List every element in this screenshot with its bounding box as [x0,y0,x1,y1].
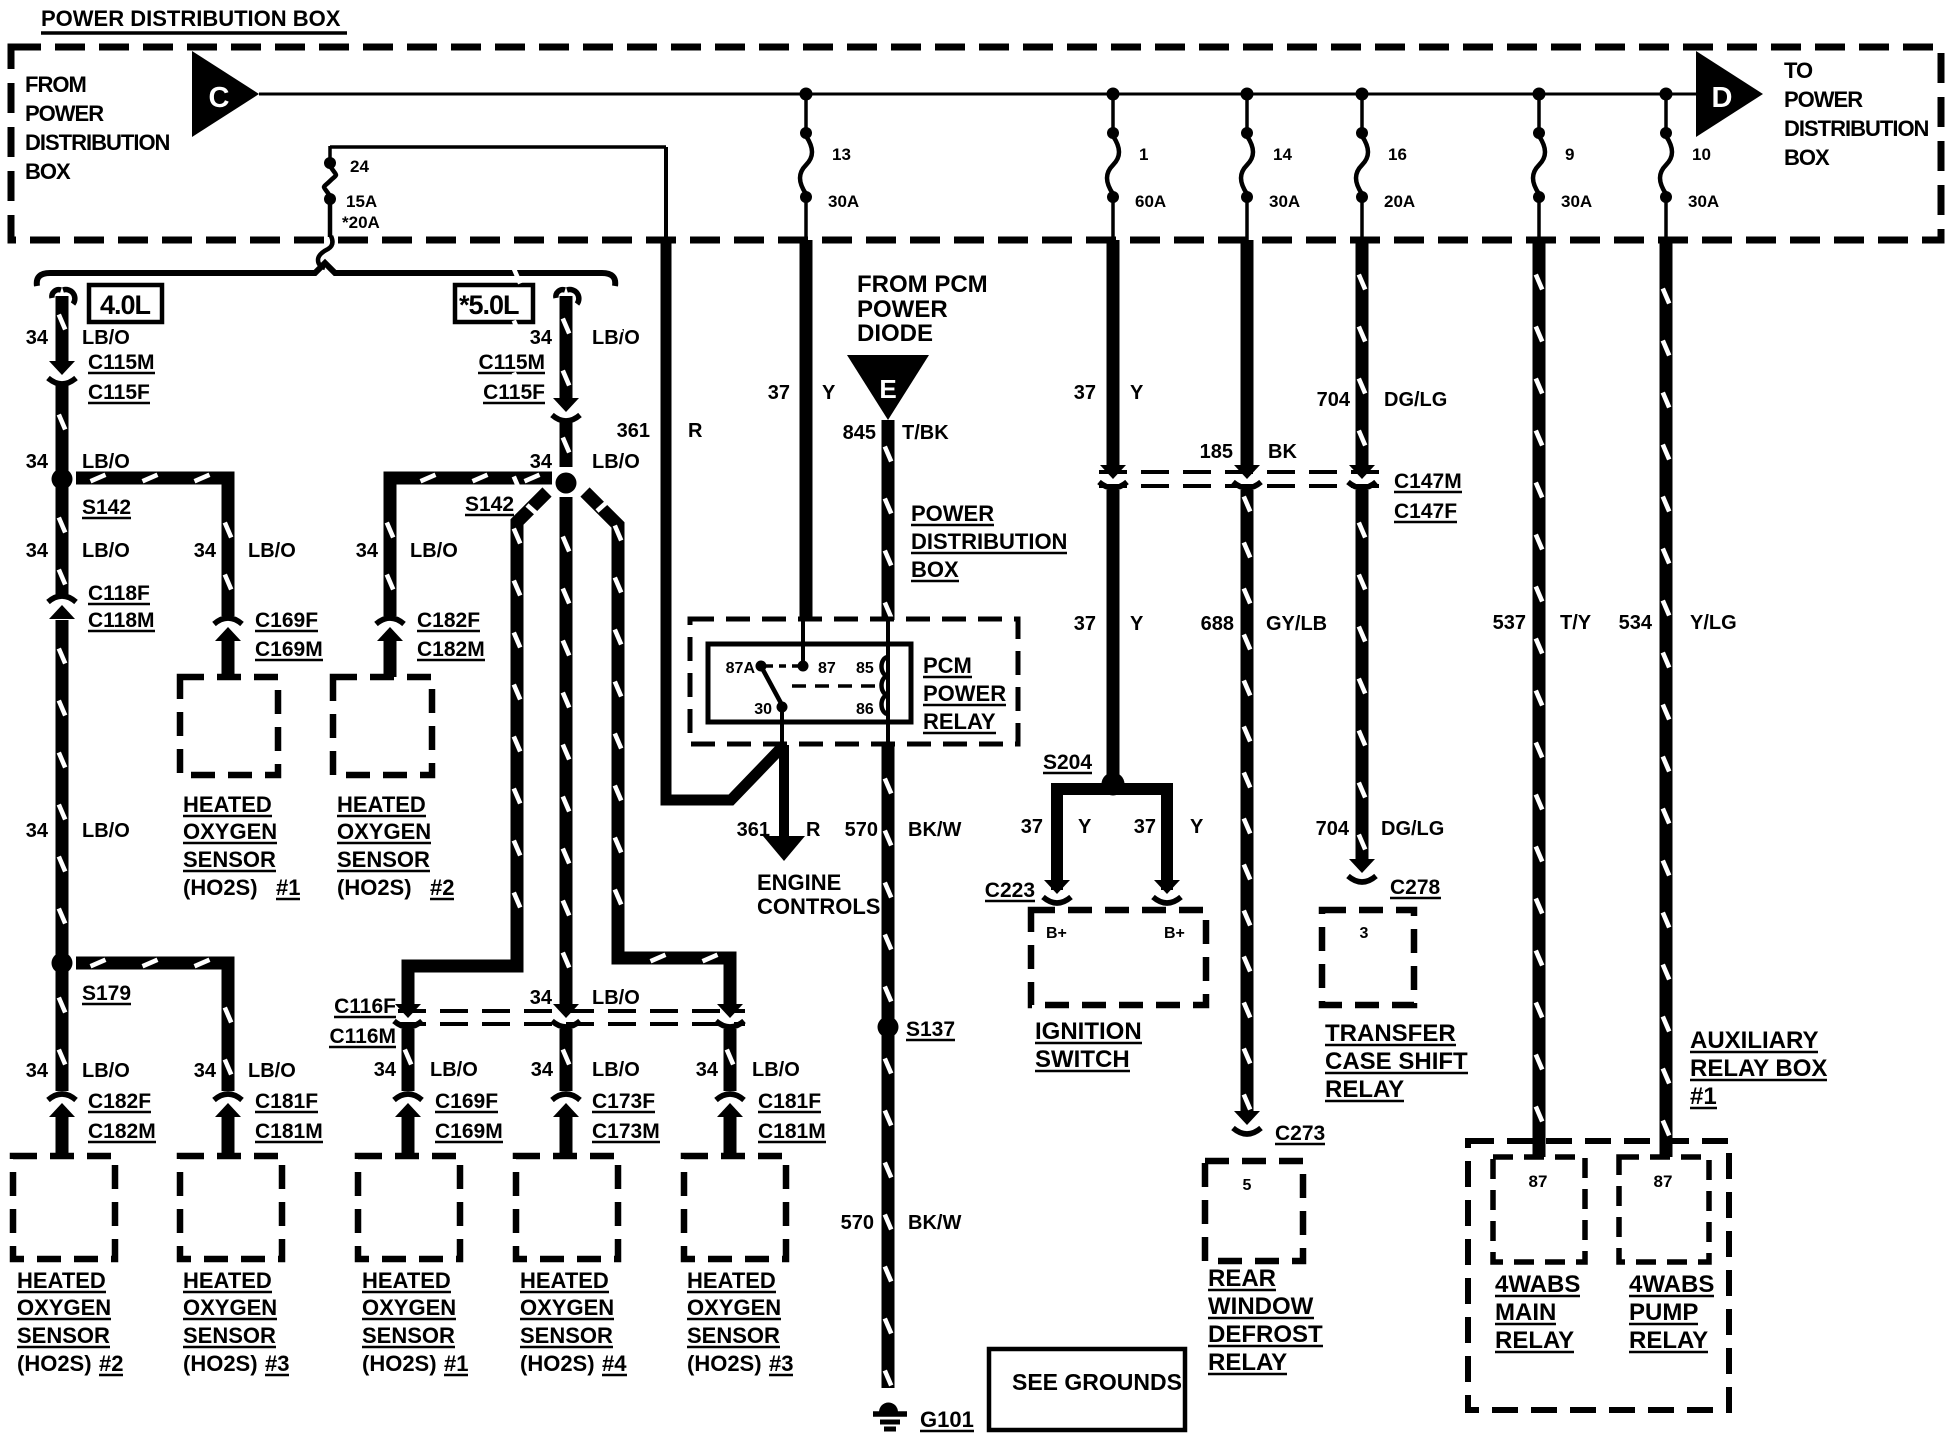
relay switch blade [762,668,782,705]
engine tag 4.0L [89,285,162,322]
svg-text:3: 3 [1360,925,1369,942]
svg-text:#1: #1 [1690,1083,1717,1110]
svg-text:570: 570 [841,1212,874,1234]
svg-text:C169M: C169M [255,638,323,661]
wire 361 R inside box [664,147,668,240]
wire 34 LB/O S142 branch to C182 (upper) [390,478,552,616]
svg-text:37: 37 [1134,816,1156,838]
svg-text:570: 570 [845,819,878,841]
svg-text:C116F: C116F [334,995,396,1018]
svg-text:HEATED: HEATED [362,1268,451,1293]
svg-text:37: 37 [1074,382,1096,404]
svg-text:S142: S142 [465,493,514,516]
wire stub into HO2S #1 box [402,1117,415,1156]
svg-text:#4: #4 [602,1351,627,1376]
svg-text:34: 34 [530,327,553,349]
svg-text:DG/LG: DG/LG [1381,818,1444,840]
svg-text:34: 34 [696,1059,719,1081]
connector C182F/C182M (bottom row 1) [49,1103,75,1117]
svg-text:LB/O: LB/O [82,327,130,349]
svg-text:1: 1 [1139,145,1148,164]
wire 361 R [666,240,783,800]
connector arrow D (to power distribution box) [1696,51,1763,137]
svg-text:688: 688 [1201,613,1234,635]
svg-text:C182F: C182F [417,609,480,632]
svg-text:86: 86 [856,701,874,718]
diode E symbol [847,355,929,420]
svg-text:POWER: POWER [25,101,104,126]
svg-text:FROM: FROM [25,72,86,97]
svg-text:BOX: BOX [911,557,959,582]
svg-text:PUMP: PUMP [1629,1299,1698,1326]
HO2S #2 box (upper) [333,677,432,775]
svg-text:SENSOR: SENSOR [17,1323,110,1348]
power distribution box outline [11,47,1941,240]
relay pin 30 [777,702,788,713]
svg-text:5: 5 [1243,1177,1252,1194]
svg-text:C181M: C181M [255,1120,323,1143]
wire 34 LB/O S179 branch to C181 (bottom row 2) [76,963,228,1091]
wire 34 LB/O (5.0L branch, x=566) top segment [556,290,565,298]
svg-text:30A: 30A [1269,192,1300,211]
HO2S #2 box (bottom row 1) [13,1156,115,1259]
svg-text:C147M: C147M [1394,470,1462,493]
svg-text:LB/O: LB/O [592,327,640,349]
svg-text:C278: C278 [1390,876,1441,899]
svg-text:34: 34 [194,1060,217,1082]
svg-text:534: 534 [1619,612,1653,634]
svg-text:SWITCH: SWITCH [1035,1046,1130,1073]
SEE GROUNDS note box [989,1349,1185,1430]
fuse 13 (30A) [804,94,808,133]
connector C181F/C181M (bottom row 2) [215,1103,241,1117]
svg-text:C115F: C115F [483,381,545,404]
svg-text:4WABS: 4WABS [1495,1271,1580,1298]
svg-text:S142: S142 [82,496,131,519]
connector C223 right half [1154,880,1180,894]
svg-text:(HO2S): (HO2S) [362,1351,437,1376]
svg-text:OXYGEN: OXYGEN [362,1295,456,1320]
connector C273 [1234,1111,1260,1125]
svg-text:30A: 30A [828,192,859,211]
svg-text:34: 34 [356,540,379,562]
splice S142 (left) [52,469,73,490]
wire stub into HO2S #4 box [560,1117,573,1156]
svg-text:34: 34 [26,451,49,473]
svg-text:RELAY: RELAY [923,709,996,734]
svg-text:POWER: POWER [911,501,994,526]
junction node on bus at x=1539 [1533,88,1546,101]
engine tag *5.0L [455,285,533,322]
svg-text:37: 37 [1021,816,1043,838]
svg-text:13: 13 [832,145,851,164]
svg-text:Y: Y [822,382,836,404]
svg-text:*5.0L: *5.0L [459,290,519,320]
svg-text:60A: 60A [1135,192,1166,211]
svg-text:WINDOW: WINDOW [1208,1293,1314,1320]
svg-text:OXYGEN: OXYGEN [183,1295,277,1320]
bus wire from C to D [259,93,1696,96]
svg-text:30: 30 [754,701,772,718]
relay coil [882,657,889,714]
connector C115M/C115F (4.0L) [49,361,75,375]
fuse 14 (30A) [1245,94,1249,133]
HO2S #4 box (bottom row 4) [516,1156,618,1259]
svg-text:BK/W: BK/W [908,819,961,841]
svg-text:34: 34 [26,327,49,349]
fuse 16 (20A) [1360,94,1364,133]
svg-text:GY/LB: GY/LB [1266,613,1327,635]
svg-text:D: D [1712,82,1733,114]
HO2S #3 box (bottom row 5) [684,1156,786,1259]
svg-text:BOX: BOX [25,159,71,184]
svg-text:Y: Y [1190,816,1204,838]
svg-text:16: 16 [1388,145,1407,164]
svg-text:C: C [209,82,230,114]
svg-text:LB/O: LB/O [592,987,640,1009]
relay pin 87 [798,661,809,672]
svg-text:Y: Y [1078,816,1092,838]
svg-text:C115F: C115F [88,381,150,404]
wire below C116 to C181 (lower right) [724,1029,737,1091]
svg-text:(HO2S): (HO2S) [183,875,258,900]
svg-text:4WABS: 4WABS [1629,1271,1714,1298]
connector C173F/C173M [553,1103,579,1117]
wire 534 Y/LG from fuse 10 [1660,240,1673,1157]
svg-text:DEFROST: DEFROST [1208,1321,1323,1348]
4WABS main relay box [1493,1157,1585,1262]
connector C223 left half [1044,880,1070,894]
PCM power relay outer box [690,619,1018,744]
svg-text:LB/O: LB/O [82,451,130,473]
svg-text:LB/O: LB/O [592,1059,640,1081]
wire stub into HO2S #1 box (upper) [222,640,235,677]
svg-text:TRANSFER: TRANSFER [1325,1020,1456,1047]
svg-text:LB/O: LB/O [82,540,130,562]
svg-text:OXYGEN: OXYGEN [337,819,431,844]
svg-text:HEATED: HEATED [17,1268,106,1293]
svg-text:POWER: POWER [857,296,948,323]
svg-text:R: R [688,420,703,442]
svg-text:*20A: *20A [342,213,380,232]
svg-text:LB/O: LB/O [248,540,296,562]
svg-text:87: 87 [1529,1172,1548,1191]
svg-text:30A: 30A [1561,192,1592,211]
svg-text:RELAY: RELAY [1495,1327,1574,1354]
wire 34 LB/O S142 down to C116 [560,497,573,1005]
svg-text:845: 845 [843,422,876,444]
svg-text:C173F: C173F [592,1090,655,1113]
fuse 24 (15A/*20A) [328,146,332,162]
svg-text:SENSOR: SENSOR [337,847,430,872]
svg-text:34: 34 [194,540,217,562]
wire 34 LB/O (4.0L branch, x=62) top segment [52,290,61,298]
connector C181F/C181M (bottom row 5) [717,1103,743,1117]
wire stub into HO2S #3 box (right) [724,1117,737,1156]
svg-text:185: 185 [1200,441,1233,463]
svg-text:361: 361 [737,819,770,841]
svg-text:BK: BK [1268,441,1297,463]
svg-text:C169F: C169F [435,1090,498,1113]
svg-text:9: 9 [1565,145,1574,164]
junction node on bus at x=806 [800,88,813,101]
svg-text:87: 87 [1654,1172,1673,1191]
svg-text:POWER: POWER [923,681,1006,706]
svg-text:LB/O: LB/O [592,451,640,473]
svg-text:IGNITION: IGNITION [1035,1018,1142,1045]
svg-text:POWER: POWER [1784,87,1863,112]
wire 34 LB/O S142 diagonal branch to C181 (bottom row 5) [585,492,730,1005]
svg-text:LB/O: LB/O [430,1059,478,1081]
svg-text:704: 704 [1316,818,1350,840]
svg-text:OXYGEN: OXYGEN [687,1295,781,1320]
svg-text:DIODE: DIODE [857,320,933,347]
svg-text:24: 24 [350,157,369,176]
svg-text:87: 87 [818,660,836,677]
svg-text:C115M: C115M [88,351,155,374]
svg-text:CONTROLS: CONTROLS [757,894,880,919]
wire stub into HO2S #2 box [56,1117,69,1156]
svg-text:HEATED: HEATED [183,792,272,817]
PCM power relay inner box [708,644,911,722]
fuse 1 (60A) [1111,94,1115,133]
svg-text:C182M: C182M [417,638,485,661]
fuse 10 (30A) [1664,94,1668,133]
svg-text:37: 37 [768,382,790,404]
svg-text:HEATED: HEATED [337,792,426,817]
inline connector C116 on wire 566 [553,1004,579,1018]
svg-text:LB/O: LB/O [248,1060,296,1082]
splice S204 bracket to ignition switch [1057,789,1167,890]
inline connector C147M/C147F lines [1099,470,1386,474]
svg-text:HEATED: HEATED [183,1268,272,1293]
svg-text:C118M: C118M [88,609,155,632]
svg-text:C181F: C181F [758,1090,821,1113]
svg-text:PCM: PCM [923,653,972,678]
wire 37 Y from fuse 1 [1107,240,1120,472]
svg-text:LB/O: LB/O [752,1059,800,1081]
svg-text:LB/O: LB/O [410,540,458,562]
wire stub into HO2S #3 box [222,1117,235,1156]
svg-text:G101: G101 [920,1407,974,1432]
svg-text:R: R [806,819,821,841]
svg-text:SENSOR: SENSOR [183,1323,276,1348]
wire 34 LB/O S179 to C182 [56,963,69,1091]
svg-text:MAIN: MAIN [1495,1299,1556,1326]
svg-text:C116M: C116M [329,1025,396,1048]
splice S204 [1102,773,1125,796]
svg-text:DISTRIBUTION: DISTRIBUTION [911,529,1067,554]
inline connector C147 on wire 1247 [1234,465,1260,479]
wire 704 DG/LG C147 to C278 [1356,490,1369,860]
svg-text:ENGINE: ENGINE [757,870,841,895]
splice S179 [52,953,73,974]
svg-text:S179: S179 [82,982,131,1005]
svg-text:SENSOR: SENSOR [520,1323,613,1348]
svg-text:704: 704 [1317,389,1351,411]
svg-text:34: 34 [530,451,553,473]
connector C278 [1349,859,1375,873]
svg-text:#2: #2 [430,875,454,900]
wire T/BK thin through relay [886,619,890,745]
arrow to engine controls [779,745,789,838]
wire 570 BK/W relay to S137 [882,744,895,1027]
junction node on bus at x=1666 [1660,88,1673,101]
ground G101 [879,1403,898,1413]
svg-text:537: 537 [1493,612,1526,634]
svg-text:POWER DISTRIBUTION BOX: POWER DISTRIBUTION BOX [41,6,341,31]
svg-text:C118F: C118F [88,582,150,605]
svg-text:20A: 20A [1384,192,1415,211]
svg-text:34: 34 [530,987,553,1009]
svg-text:RELAY BOX: RELAY BOX [1690,1055,1827,1082]
svg-text:87A: 87A [726,660,756,677]
svg-text:4.0L: 4.0L [100,290,151,320]
connector arrow C (from power distribution box) [192,51,259,137]
svg-text:10: 10 [1692,145,1711,164]
svg-text:C115M: C115M [478,351,545,374]
svg-text:CASE SHIFT: CASE SHIFT [1325,1048,1468,1075]
svg-text:#3: #3 [769,1351,793,1376]
svg-text:(HO2S): (HO2S) [183,1351,258,1376]
HO2S #1 box (upper) [180,677,278,775]
relay contact dashed link [766,664,798,668]
wire 34 LB/O below C115 [56,382,69,479]
inline connector C116 on wire 730 [717,1004,743,1018]
wire 570 BK/W S137 to ground [882,1027,895,1388]
inline connector C147 on wire 1113 [1100,465,1126,479]
svg-text:(HO2S): (HO2S) [520,1351,595,1376]
auxiliary relay box #1 outline [1468,1141,1729,1410]
svg-text:37: 37 [1074,613,1096,635]
svg-text:S137: S137 [906,1018,955,1041]
svg-text:S204: S204 [1043,751,1092,774]
svg-text:85: 85 [856,660,874,677]
wire 537 T/Y from fuse 9 [1533,240,1546,1157]
junction node on bus at x=1362 [1356,88,1369,101]
wire 34 LB/O C118 to S179 [56,620,69,963]
svg-text:C273: C273 [1275,1122,1325,1145]
connector C169F/C169M (upper) [215,627,241,641]
svg-text:#1: #1 [444,1351,468,1376]
splice S137 [878,1017,899,1038]
svg-text:T/BK: T/BK [902,422,949,444]
svg-text:34: 34 [531,1059,554,1081]
wire 34 LB/O C116 to C173 [560,1029,573,1091]
svg-text:C147F: C147F [1394,500,1457,523]
junction node on bus at x=1113 [1107,88,1120,101]
svg-text:DISTRIBUTION: DISTRIBUTION [25,130,170,155]
svg-text:Y: Y [1130,613,1144,635]
connector C182F/C182M (upper) [377,627,403,641]
connector C118F/C118M [49,605,75,619]
relay pin 30 lead [780,712,784,747]
svg-text:C181F: C181F [255,1090,318,1113]
svg-text:15A: 15A [346,192,377,211]
harness bracket [37,263,615,286]
svg-text:BOX: BOX [1784,145,1830,170]
wire stub into HO2S #2 box (upper) [384,640,397,677]
svg-text:DG/LG: DG/LG [1384,389,1447,411]
ignition switch box [1031,910,1206,1005]
svg-text:Y/LG: Y/LG [1690,612,1737,634]
svg-text:E: E [879,374,896,404]
inline connector C116F/C116M lines [398,1009,745,1013]
inline connector C116 on wire 408 [395,1004,421,1018]
transfer case shift relay box [1322,910,1414,1005]
svg-text:#2: #2 [99,1351,123,1376]
svg-text:C169M: C169M [435,1120,503,1143]
wire 34 LB/O S142 diagonal branch to C169 (lower) [408,492,547,1005]
svg-text:C182M: C182M [88,1120,156,1143]
svg-text:34: 34 [26,540,49,562]
svg-text:T/Y: T/Y [1560,612,1592,634]
svg-text:OXYGEN: OXYGEN [17,1295,111,1320]
svg-text:34: 34 [26,820,49,842]
svg-text:LB/O: LB/O [82,1060,130,1082]
inline connector C147 on wire 1362 [1349,465,1375,479]
svg-text:RELAY: RELAY [1208,1349,1287,1376]
wire 185 BK from fuse 14 [1241,240,1254,472]
relay pin 87A [756,661,767,672]
relay actuation dashed line [792,684,876,688]
svg-text:C182F: C182F [88,1090,151,1113]
svg-text:#1: #1 [276,875,300,900]
svg-text:OXYGEN: OXYGEN [183,819,277,844]
svg-text:SEE GROUNDS: SEE GROUNDS [1012,1369,1182,1395]
svg-text:361: 361 [617,420,650,442]
svg-text:C173M: C173M [592,1120,660,1143]
svg-text:(HO2S): (HO2S) [17,1351,92,1376]
wire 688 GY/LB C147 to C273 [1241,490,1254,1112]
svg-text:FROM PCM: FROM PCM [857,271,988,298]
HO2S #3 box (bottom row 2) [180,1156,282,1259]
svg-text:LB/O: LB/O [82,820,130,842]
svg-text:Y: Y [1130,382,1144,404]
4WABS pump relay box [1619,1157,1709,1262]
svg-text:TO: TO [1784,58,1813,83]
svg-text:HEATED: HEATED [687,1268,776,1293]
wire 704 DG/LG from fuse 16 [1356,240,1369,472]
wire 37 Y C147 to S204 [1107,490,1120,778]
svg-text:SENSOR: SENSOR [687,1323,780,1348]
svg-text:RELAY: RELAY [1629,1327,1708,1354]
svg-text:30A: 30A [1688,192,1719,211]
connector C169F/C169M (bottom row 3) [395,1103,421,1117]
svg-text:C181M: C181M [758,1120,826,1143]
connector C115M/C115F (5.0L) [553,398,579,412]
wire below C116 to C169 (lower) [402,1029,415,1091]
svg-text:OXYGEN: OXYGEN [520,1295,614,1320]
svg-text:HEATED: HEATED [520,1268,609,1293]
svg-text:B+: B+ [1046,925,1067,942]
svg-text:AUXILIARY: AUXILIARY [1690,1027,1818,1054]
fuse 9 (30A) [1537,94,1541,133]
wire 37 Y from fuse 13 [800,240,813,618]
svg-text:(HO2S): (HO2S) [337,875,412,900]
svg-text:34: 34 [26,1060,49,1082]
svg-text:REAR: REAR [1208,1265,1276,1292]
svg-text:C223: C223 [985,879,1035,902]
svg-text:(HO2S): (HO2S) [687,1351,762,1376]
feed wire to fuse 24 and R wire [330,145,666,149]
wire 34 LB/O below C115 (5.0L) [560,419,573,467]
svg-text:BK/W: BK/W [908,1212,961,1234]
wire 34 LB/O S142 to C118 [56,479,69,597]
wire 845 T/BK diode to relay [882,420,895,620]
svg-text:34: 34 [374,1059,397,1081]
rear window defrost relay box [1205,1161,1303,1261]
